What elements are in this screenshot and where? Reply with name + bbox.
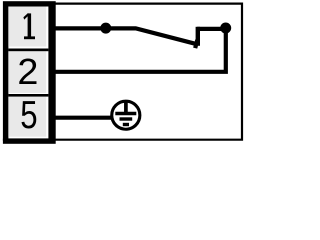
- svg-text:2: 2: [17, 52, 38, 92]
- PE stem: [124, 101, 128, 113]
- svg-text:5: 5: [20, 94, 37, 137]
- divider between cell 2 and 5: [8, 94, 48, 97]
- PE bar short: [123, 123, 129, 126]
- junction dot node B: [220, 23, 231, 34]
- terminal block body: [3, 1, 56, 144]
- terminal cell 5: [8, 97, 46, 137]
- wire: pin 1 to switch lever S1: [50, 28, 197, 44]
- junction dot on pin 1 wire: [100, 23, 111, 34]
- divider between cell 1 and 2: [8, 49, 48, 52]
- switch S1 contact tick: [195, 40, 197, 48]
- terminal cell 1: [8, 7, 46, 47]
- PE bar medium: [120, 117, 133, 120]
- protective earth PE symbol circle: [112, 101, 140, 129]
- terminal cell 2: [8, 51, 46, 93]
- wire: fixed terminal to node B, down and back to pin 2: [50, 29, 226, 72]
- outer frame: [3, 4, 242, 140]
- pin label 1: [23, 13, 35, 39]
- PE bar long: [115, 112, 136, 115]
- wire: pin 5 to protective earth: [50, 116, 111, 120]
- switch S1 fixed terminal: [196, 27, 200, 46]
